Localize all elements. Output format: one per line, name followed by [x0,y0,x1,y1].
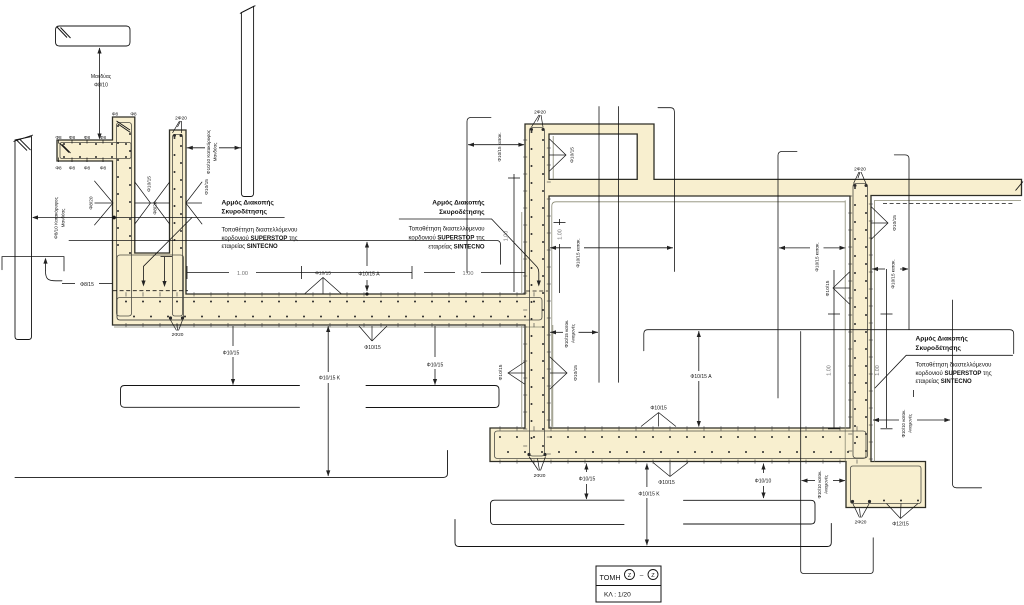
fan Φ10/15 right wall right [872,207,889,239]
svg-text:ΚΛ : 1/20: ΚΛ : 1/20 [604,592,631,599]
svg-text:Φ10/10 κατακ.: Φ10/10 κατακ. [817,470,822,498]
formwork offset outline under band [552,202,845,426]
formwork board middle [241,6,253,196]
formwork line under right band [874,199,1021,201]
section line right [953,300,982,488]
svg-text:Φ10/15: Φ10/15 [498,364,504,380]
rebar dots bottom slab [499,436,501,438]
svg-text:Σκυροδέτησης: Σκυροδέτησης [439,209,485,216]
main bars 2Φ20 dots central wall top [530,128,533,131]
fan column B right [186,182,202,224]
svg-text:–: – [640,573,644,580]
leader construction joint line (middle) [399,218,492,220]
svg-text:Φ10/15: Φ10/15 [204,179,210,195]
svg-text:Φ10/15: Φ10/15 [825,280,831,296]
svg-text:Φ12/15: Φ12/15 [892,522,909,528]
dim Φ10/15 A (left) [366,242,368,266]
leader SUPERSTOP (right) [875,355,1013,388]
stirrup footing [851,466,922,504]
svg-text:Αναμονές: Αναμονές [571,324,576,343]
svg-text:Φ8: Φ8 [84,135,91,140]
dim Φ10/10 footing [763,464,765,474]
svg-text:εταιρείας SINTECNO: εταιρείας SINTECNO [916,379,973,385]
svg-text:ΤΟΜΗ: ΤΟΜΗ [600,573,621,582]
svg-text:Τοποθέτηση διαστελλόμενου: Τοποθέτηση διαστελλόμενου [409,226,485,233]
svg-text:2Φ20: 2Φ20 [175,116,187,122]
rebar dots left slab [125,301,127,303]
svg-text:Φ10/15: Φ10/15 [427,363,444,369]
fan Φ10/15 wall right top [550,139,567,171]
projection line 1 [598,106,600,382]
stirrup ticks left slab edges [125,292,127,296]
outline box center [491,500,625,524]
svg-text:Μανδύας: Μανδύας [91,73,112,80]
svg-text:Φ8: Φ8 [69,166,76,171]
tick right band end [1016,182,1024,191]
svg-text:Φ10/15: Φ10/15 [364,345,381,351]
dim Φ10/10 κατακ. Αναμονές (right) [873,419,899,421]
svg-text:Φ8: Φ8 [130,112,137,117]
svg-text:Τοποθέτηση διαστελλόμενου: Τοποθέτηση διαστελλόμενου [222,227,298,234]
stirrup ticks central wall edges [523,139,527,141]
svg-text:Φ10/15 κατακ.: Φ10/15 κατακ. [564,320,569,348]
svg-text:Φ8: Φ8 [100,135,107,140]
svg-text:εταιρείας SINTECNO: εταιρείας SINTECNO [428,245,485,251]
dim 1.00 left of right wall [833,270,835,428]
svg-text:1.00: 1.00 [827,365,833,376]
svg-text:Φ10/15 A: Φ10/15 A [690,374,712,380]
formwork line left of central wall upper [521,212,523,293]
svg-text:Μανδύας: Μανδύας [212,142,218,162]
svg-text:Φ8: Φ8 [55,166,62,171]
svg-text:Φ10/15: Φ10/15 [892,215,898,231]
dim Φ10/10 κατακ. Αναμονές (left) [802,480,816,482]
fan column B left [154,182,170,224]
svg-text:Φ10/15 κατακ.: Φ10/15 κατακ. [891,259,896,288]
dim Φ10/10 κατακόρυφος μανδύας [187,147,205,149]
outline box left [121,386,300,408]
svg-text:2Φ20: 2Φ20 [534,110,546,116]
rebar dots column B [174,137,176,139]
svg-text:Φ10/15: Φ10/15 [650,406,667,412]
dim chain 1.00 [187,272,229,274]
formwork line in notch [552,136,554,179]
svg-text:κορδονιού SUPERSTOP της: κορδονιού SUPERSTOP της [916,371,992,377]
stirrup column A [117,123,132,317]
svg-text:Φ10/15: Φ10/15 [315,271,331,277]
stirrup right wall [853,184,868,459]
svg-text:2Φ20: 2Φ20 [854,167,866,173]
fan Φ8/20 column A left [95,181,114,225]
svg-text:Αναμονές: Αναμονές [908,414,913,433]
concrete section (walls, slabs, footing) [57,117,1022,508]
ground line left [15,451,448,478]
svg-text:Φ8/20: Φ8/20 [89,196,95,209]
rebar dots right wall [854,187,856,189]
title block [596,566,661,602]
dim Φ10/15 A (right) [698,331,700,371]
svg-text:2Φ20: 2Φ20 [855,520,867,526]
rebar dots column A [117,125,119,127]
svg-text:1.00: 1.00 [875,365,881,376]
svg-text:Φ10/15: Φ10/15 [573,365,579,381]
svg-text:2Φ20: 2Φ20 [534,473,546,479]
svg-text:1.00: 1.00 [463,271,474,277]
cut tick column A top [117,121,131,130]
projection line 2 [618,106,620,382]
svg-text:Μανδύας: Μανδύας [60,208,66,228]
dim Φ10/15 below bottom slab [585,464,587,473]
dim 1.00 right of wall [559,219,561,225]
leader construction joint (right) [644,330,1014,354]
main bars 2Φ20 dots footing [851,500,854,503]
svg-text:Αρμός Διακοπής: Αρμός Διακοπής [916,336,969,343]
svg-text:Φ8/10: Φ8/10 [94,83,108,89]
dim 1.00 left of wall [513,174,515,292]
dim Φ10/15 below left slab [232,326,234,346]
svg-text:Αρμός Διακοπής: Αρμός Διακοπής [222,200,275,207]
pier splice arrow [161,256,173,258]
stirrup ticks bottom slab edges [499,426,501,430]
main bars 2Φ20 dots column B top [173,134,176,137]
section bracket below footing [801,332,874,574]
svg-text:Φ10/15 κατακ.: Φ10/15 κατακ. [576,238,581,267]
construction joint central wall (dashed) [526,290,548,292]
svg-text:κορδονιού SUPERSTOP της: κορδονιού SUPERSTOP της [222,236,298,242]
svg-text:Φ10/15 K: Φ10/15 K [638,492,660,498]
dowels right of right wall (dashed) [883,203,1015,205]
svg-text:Φ10/15 κατακ.: Φ10/15 κατακ. [497,132,502,161]
outline box right [684,500,816,524]
svg-text:1.00: 1.00 [558,229,564,240]
cut tick bar left end [60,143,70,153]
dim Φ10/15 K left [327,326,329,372]
svg-text:Φ8: Φ8 [55,135,62,140]
main bars 2Φ20 dots left slab [169,316,172,319]
arrow Μανδύας [99,48,101,139]
reference bracket x778 [778,152,797,399]
stirrup ticks right wall edges [848,195,852,197]
leader construction joint line (left) [33,217,285,219]
reference bracket x909 [894,155,909,330]
svg-text:Φ10/15 κατακ.: Φ10/15 κατακ. [815,242,820,271]
formwork line under left slab [114,326,542,328]
svg-text:Φ8: Φ8 [100,166,107,171]
construction joint pier (dashed) [113,290,188,292]
main bars 2Φ20 dots bottom slab [527,453,530,456]
dim 1.00 right of right wall [886,269,888,428]
svg-text:εταιρείας SINTECNO: εταιρείας SINTECNO [222,244,279,250]
dim Φ10/15 κατακ. left of right wall [779,247,810,249]
svg-text:Φ8: Φ8 [84,166,91,171]
svg-text:Z: Z [628,573,632,579]
fan Φ10/15 wall left lower [508,362,525,384]
svg-text:Z: Z [651,573,655,579]
dim Φ10/15 κατακ. to wall [468,144,524,146]
dim Φ10/15 κατακ. right of right wall [872,268,885,270]
svg-text:Αρμός Διακοπής: Αρμός Διακοπής [432,200,485,207]
rebar dots footing [883,500,885,502]
svg-text:Σκυροδέτησης: Σκυροδέτησης [916,345,962,352]
svg-text:Φ10/10 κατακ.: Φ10/10 κατακ. [901,409,906,437]
bracket Φ8/15 [2,257,64,271]
dim Φ10/15 κατακ. right of wall [550,247,571,249]
rebar dots top-left bar [63,143,65,145]
stirrup pier [117,255,184,320]
ground line right [455,520,831,547]
fan column A right [135,182,151,224]
stirrup left slab [117,298,542,321]
main bars 2Φ20 dots right wall top [854,184,857,187]
formwork board left [15,137,32,340]
svg-text:Φ10/10: Φ10/10 [755,478,772,484]
stirrup central wall [530,128,545,457]
stirrup column B [173,135,183,317]
svg-text:Σκυροδέτησης: Σκυροδέτησης [222,209,268,216]
svg-text:Φ10/15 K: Φ10/15 K [319,376,341,382]
svg-text:Φ10/15: Φ10/15 [147,176,153,192]
svg-text:Φ8/15: Φ8/15 [80,282,94,288]
svg-text:Φ8: Φ8 [112,112,119,117]
svg-text:Φ8/10 Κατακόρυφος: Φ8/10 Κατακόρυφος [53,196,59,238]
svg-text:1.00: 1.00 [504,231,510,242]
detail box Μανδύας [56,26,131,46]
formwork lines central wall lower [521,325,523,428]
svg-text:Φ10/10 Κατακόρυφος: Φ10/10 Κατακόρυφος [205,129,211,174]
svg-text:Φ10/15: Φ10/15 [570,147,576,163]
svg-text:Φ8: Φ8 [69,135,76,140]
svg-text:2Φ20: 2Φ20 [172,332,184,338]
reference bracket x674 [658,108,674,272]
svg-text:Φ10/15: Φ10/15 [579,477,596,483]
reference line left of wall [467,118,491,273]
svg-text:Τοποθέτηση διαστελλόμενου: Τοποθέτηση διαστελλόμενου [916,362,992,369]
fan Φ10/15 wall right lower [550,357,567,389]
svg-text:Αναμονές: Αναμονές [824,475,829,494]
dim Φ10/15 K right [646,464,648,488]
dim Φ10/15 κατακ. αναμονές [550,331,563,333]
svg-text:Φ10/15: Φ10/15 [223,351,240,357]
svg-text:Φ10/15: Φ10/15 [658,480,675,486]
stirrup bottom slab [495,431,867,459]
dim arrow Φ10/15 into slab right part [434,326,436,357]
svg-text:Φ10/15 A: Φ10/15 A [358,272,380,278]
leader SUPERSTOP line [69,241,501,265]
stirrup top-left bar [60,143,131,159]
formwork lines right wall [844,200,846,461]
svg-text:1.00: 1.00 [237,271,248,277]
svg-text:Φ8/20: Φ8/20 [153,201,159,214]
rebar dots central wall [531,131,533,133]
fan Φ10/15 right wall left [833,272,850,304]
